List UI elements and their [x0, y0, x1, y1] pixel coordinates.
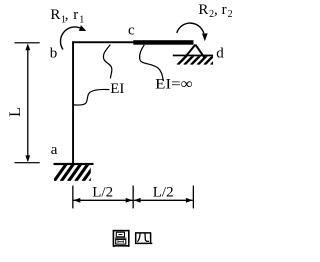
- bottom dimension: line L/2 right segment: [134, 199, 193, 201]
- caption glyph TU (figure): [113, 231, 128, 248]
- svg-text:L/2: L/2: [153, 185, 174, 201]
- svg-text:L: L: [7, 107, 24, 117]
- bottom dimension: middle tick: [133, 186, 134, 209]
- left dimension: top tick at b level: [15, 42, 40, 43]
- arrowhead middle rightside: [134, 198, 141, 203]
- fixed support at a : surface line: [54, 163, 94, 165]
- svg-text:a: a: [51, 142, 58, 158]
- left dimension: bottom tick at a level: [15, 162, 40, 163]
- leader squiggle from beam b-c to EI label: [103, 45, 111, 79]
- arrowhead middle leftside: [126, 198, 133, 203]
- rotation arrow R1 at b: [60, 27, 80, 50]
- left dimension: bottom arrowhead: [25, 155, 30, 162]
- rotation arrow R2 at d: [177, 23, 204, 33]
- rigid beam c-d (EI=infinity): [133, 40, 193, 45]
- arrowhead left outward: [74, 198, 81, 203]
- fixed support at a : hatching: [54, 164, 102, 181]
- pin support at d : ground line: [173, 55, 213, 57]
- svg-text:c: c: [128, 23, 135, 39]
- svg-text:EI=∞: EI=∞: [155, 77, 193, 93]
- svg-text:b: b: [50, 46, 58, 62]
- svg-text:R2,r2: R2,r2: [198, 2, 232, 20]
- bottom dimension: left tick: [72, 186, 73, 209]
- arrowhead right outward: [186, 198, 193, 203]
- leader squiggle from column to EI label: [74, 89, 109, 105]
- svg-text:EI: EI: [110, 81, 124, 97]
- bottom dimension: line L/2 left segment: [74, 199, 133, 201]
- svg-text:L/2: L/2: [92, 185, 113, 201]
- pin support at d : triangle: [182, 45, 205, 61]
- caption glyph SI (four): [135, 233, 152, 244]
- svg-text:d: d: [216, 45, 224, 61]
- leader squiggle from rigid beam to EI=inf label: [140, 45, 164, 81]
- svg-text:R1,r1: R1,r1: [50, 7, 84, 25]
- beam b-c (member EI): [72, 41, 134, 43]
- pin support at d : hatching: [178, 56, 221, 66]
- left dimension: top arrowhead: [25, 43, 30, 50]
- column a-b (member EI): [72, 41, 74, 164]
- bottom dimension: right tick: [193, 186, 194, 209]
- left dimension: vertical line: [27, 48, 29, 159]
